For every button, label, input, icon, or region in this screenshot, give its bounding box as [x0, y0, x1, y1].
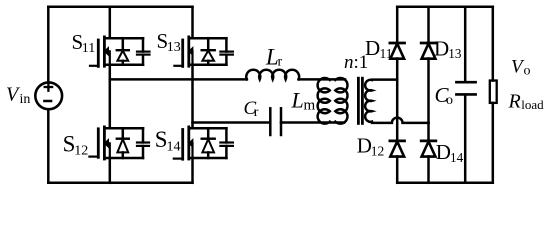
capacitor S12 bottom plate	[137, 145, 149, 147]
wire Lr to transformer primary top	[299, 78, 345, 81]
diode S14 cathode bar	[202, 137, 215, 139]
svg-text:R: R	[508, 91, 521, 113]
diode S12 body diode lead	[122, 128, 125, 138]
capacitor Cr right plate	[280, 108, 283, 135]
wire Rload bottom lead	[492, 103, 495, 183]
wire S12 body to source	[108, 143, 110, 158]
wire S14 gate lead stub	[174, 158, 183, 160]
svg-text:m: m	[304, 97, 316, 113]
diode S11 cathode bar	[117, 49, 129, 51]
capacitor S14 bottom lead	[225, 146, 228, 158]
capacitor S14 bottom plate	[220, 145, 233, 147]
diode S12 triangle	[117, 139, 128, 152]
inductor Lm magnetizing winding	[318, 78, 330, 124]
wire D13 cathode lead	[427, 7, 430, 43]
wire S11 drain rail	[104, 37, 143, 40]
S12 channel bar	[103, 127, 106, 159]
transistor S12 MOSFET	[89, 127, 149, 159]
source Vin minus sign	[44, 100, 51, 103]
S11 channel bar	[103, 37, 106, 66]
wire top rail of rectifier	[397, 6, 493, 9]
S11 gate bar	[97, 40, 100, 66]
wire Co top lead	[464, 7, 467, 82]
diode D14	[421, 141, 436, 183]
diode D13 triangle	[422, 44, 436, 59]
capacitor S12 top plate	[137, 141, 149, 143]
transformer T1 core bar right	[361, 78, 364, 123]
wire tank bottom from leg2 midpoint to Cr	[193, 121, 271, 124]
diode S14 triangle	[202, 139, 214, 152]
svg-text:D: D	[434, 36, 449, 60]
svg-text:12: 12	[371, 144, 385, 159]
capacitor Co output	[456, 7, 475, 183]
capacitor S13 bottom plate	[220, 53, 233, 55]
wire S13 source rail	[189, 64, 227, 67]
S14 gate bar	[181, 130, 184, 160]
wire S12 source to bottom rail	[109, 158, 112, 183]
wire D11 cathode lead	[396, 7, 399, 43]
wire S12 source rail	[104, 157, 143, 160]
svg-text:in: in	[20, 92, 31, 107]
capacitor Co top plate	[456, 81, 475, 84]
capacitor S13 top plate	[220, 50, 233, 52]
capacitor S12 bottom lead	[142, 146, 145, 158]
capacitor S14 snubber top lead	[225, 128, 228, 142]
diode S11 body diode lead	[122, 38, 125, 50]
svg-text:D: D	[357, 134, 372, 158]
wire S14 source rail	[189, 157, 227, 160]
wire S11 body to source	[108, 51, 110, 65]
transistor S13 MOSFET	[174, 7, 233, 67]
diode D12 cathode bar	[390, 139, 405, 142]
wire S12 gate lead stub	[89, 156, 98, 158]
source Vin circle	[35, 82, 62, 109]
wire S14 drain rail	[189, 127, 227, 130]
wire S14 source to bottom rail	[191, 158, 194, 183]
wire S11 diode anode lead	[122, 61, 125, 65]
wire S14 body to source	[191, 143, 193, 158]
wire secondary top lead to rectifier left leg	[372, 78, 397, 81]
svg-text:14: 14	[450, 150, 464, 165]
svg-text:o: o	[446, 93, 453, 108]
capacitor S11 snubber top lead	[142, 38, 145, 51]
wire Rload top lead	[492, 7, 495, 81]
diode S11 triangle	[117, 51, 128, 61]
diode D11 triangle	[390, 44, 404, 59]
svg-text:11: 11	[82, 41, 95, 56]
diode D11	[390, 7, 405, 80]
wire S12 drain rail	[104, 127, 143, 130]
S14 body arrow	[189, 140, 193, 147]
S13 channel bar	[187, 37, 190, 66]
diode D12 triangle	[390, 142, 404, 157]
source Vin plus sign	[45, 83, 52, 90]
capacitor S12 snubber top lead	[142, 128, 145, 142]
wire Cr to transformer primary bottom	[281, 121, 344, 124]
wire S11 drain lead	[109, 7, 112, 38]
S12 gate bar	[97, 129, 100, 158]
wire S14 diode anode lead	[207, 152, 210, 158]
wire left leg mid section	[396, 80, 399, 141]
wire S12 diode anode lead	[122, 152, 125, 158]
diode D11 cathode bar	[390, 42, 405, 45]
wire D12 anode lead	[396, 156, 399, 182]
svg-text:load: load	[521, 97, 544, 112]
svg-text:13: 13	[448, 46, 462, 61]
capacitor S11 top plate	[137, 50, 150, 52]
wire Co bottom lead	[464, 95, 467, 183]
wire D13 anode lead	[427, 59, 430, 123]
svg-text:L: L	[291, 88, 304, 113]
svg-text:14: 14	[167, 139, 181, 154]
capacitor S13 snubber top lead	[225, 38, 228, 51]
diode D14 triangle	[422, 142, 436, 157]
svg-text:D: D	[365, 36, 380, 60]
svg-text:12: 12	[74, 144, 88, 159]
capacitor Co bottom plate	[456, 93, 475, 96]
capacitor S11 bottom plate	[137, 53, 150, 55]
resistor Rload box	[490, 81, 497, 103]
svg-text:r: r	[254, 105, 259, 120]
diode S13 triangle	[202, 51, 214, 61]
diode D13 cathode bar	[421, 42, 436, 45]
wire S13 drain lead	[191, 7, 194, 38]
wire top rail of input bridge	[48, 6, 192, 9]
wire S13 body to source	[191, 51, 193, 65]
wire bottom rail of rectifier	[397, 182, 493, 185]
transformer T1 core bar left	[357, 78, 360, 123]
S14 channel bar	[187, 127, 190, 159]
wire leg2 midpoint vertical S13 source to S14 drain	[191, 65, 194, 128]
diode S13 cathode bar	[202, 49, 215, 51]
diode S14 body diode lead	[207, 128, 210, 138]
svg-text:o: o	[524, 64, 531, 79]
S13 gate bar	[181, 40, 184, 66]
wire leg1 midpoint vertical S11 source to S12 drain	[109, 65, 112, 128]
wire left rail below source Vin	[47, 109, 50, 182]
capacitor S11 bottom lead	[142, 55, 145, 65]
wire bottom rail of input bridge	[48, 182, 192, 185]
wire S11 source rail	[104, 64, 143, 67]
diode S13 body diode lead	[207, 38, 210, 50]
S11 body arrow	[105, 48, 109, 55]
svg-text:13: 13	[167, 40, 181, 55]
capacitor Cr left plate	[269, 108, 272, 135]
diode S12 cathode bar	[117, 137, 129, 139]
wire S13 gate lead stub	[174, 65, 182, 67]
capacitor S14 top plate	[220, 141, 233, 143]
wire right leg mid section	[427, 123, 430, 141]
capacitor S13 bottom lead	[225, 55, 228, 65]
wire left rail above source Vin	[47, 7, 50, 82]
svg-text:D: D	[436, 140, 451, 164]
wire S11 gate lead stub	[90, 65, 98, 67]
wire secondary bottom lead with crossover hop to rectifier right leg	[372, 118, 429, 123]
wire S13 diode anode lead	[207, 61, 210, 65]
diode D13	[421, 7, 436, 123]
diode D14 cathode bar	[421, 139, 436, 142]
wire tank top from leg1 midpoint to Lr	[110, 78, 247, 81]
S12 body arrow	[105, 140, 109, 147]
transistor S11 MOSFET	[90, 7, 150, 67]
S13 body arrow	[189, 48, 193, 55]
wire D11 anode lead	[396, 59, 399, 80]
inductor Lr resonant	[246, 70, 299, 80]
transformer T1 secondary winding	[365, 80, 372, 122]
svg-text:r: r	[278, 55, 283, 70]
transistor S14 MOSFET	[174, 127, 233, 159]
transformer T1 primary winding	[335, 78, 347, 124]
wire S13 drain rail	[189, 37, 227, 40]
wire D14 anode lead	[427, 156, 430, 182]
resistor Rload	[490, 7, 497, 183]
diode D12	[390, 141, 405, 183]
